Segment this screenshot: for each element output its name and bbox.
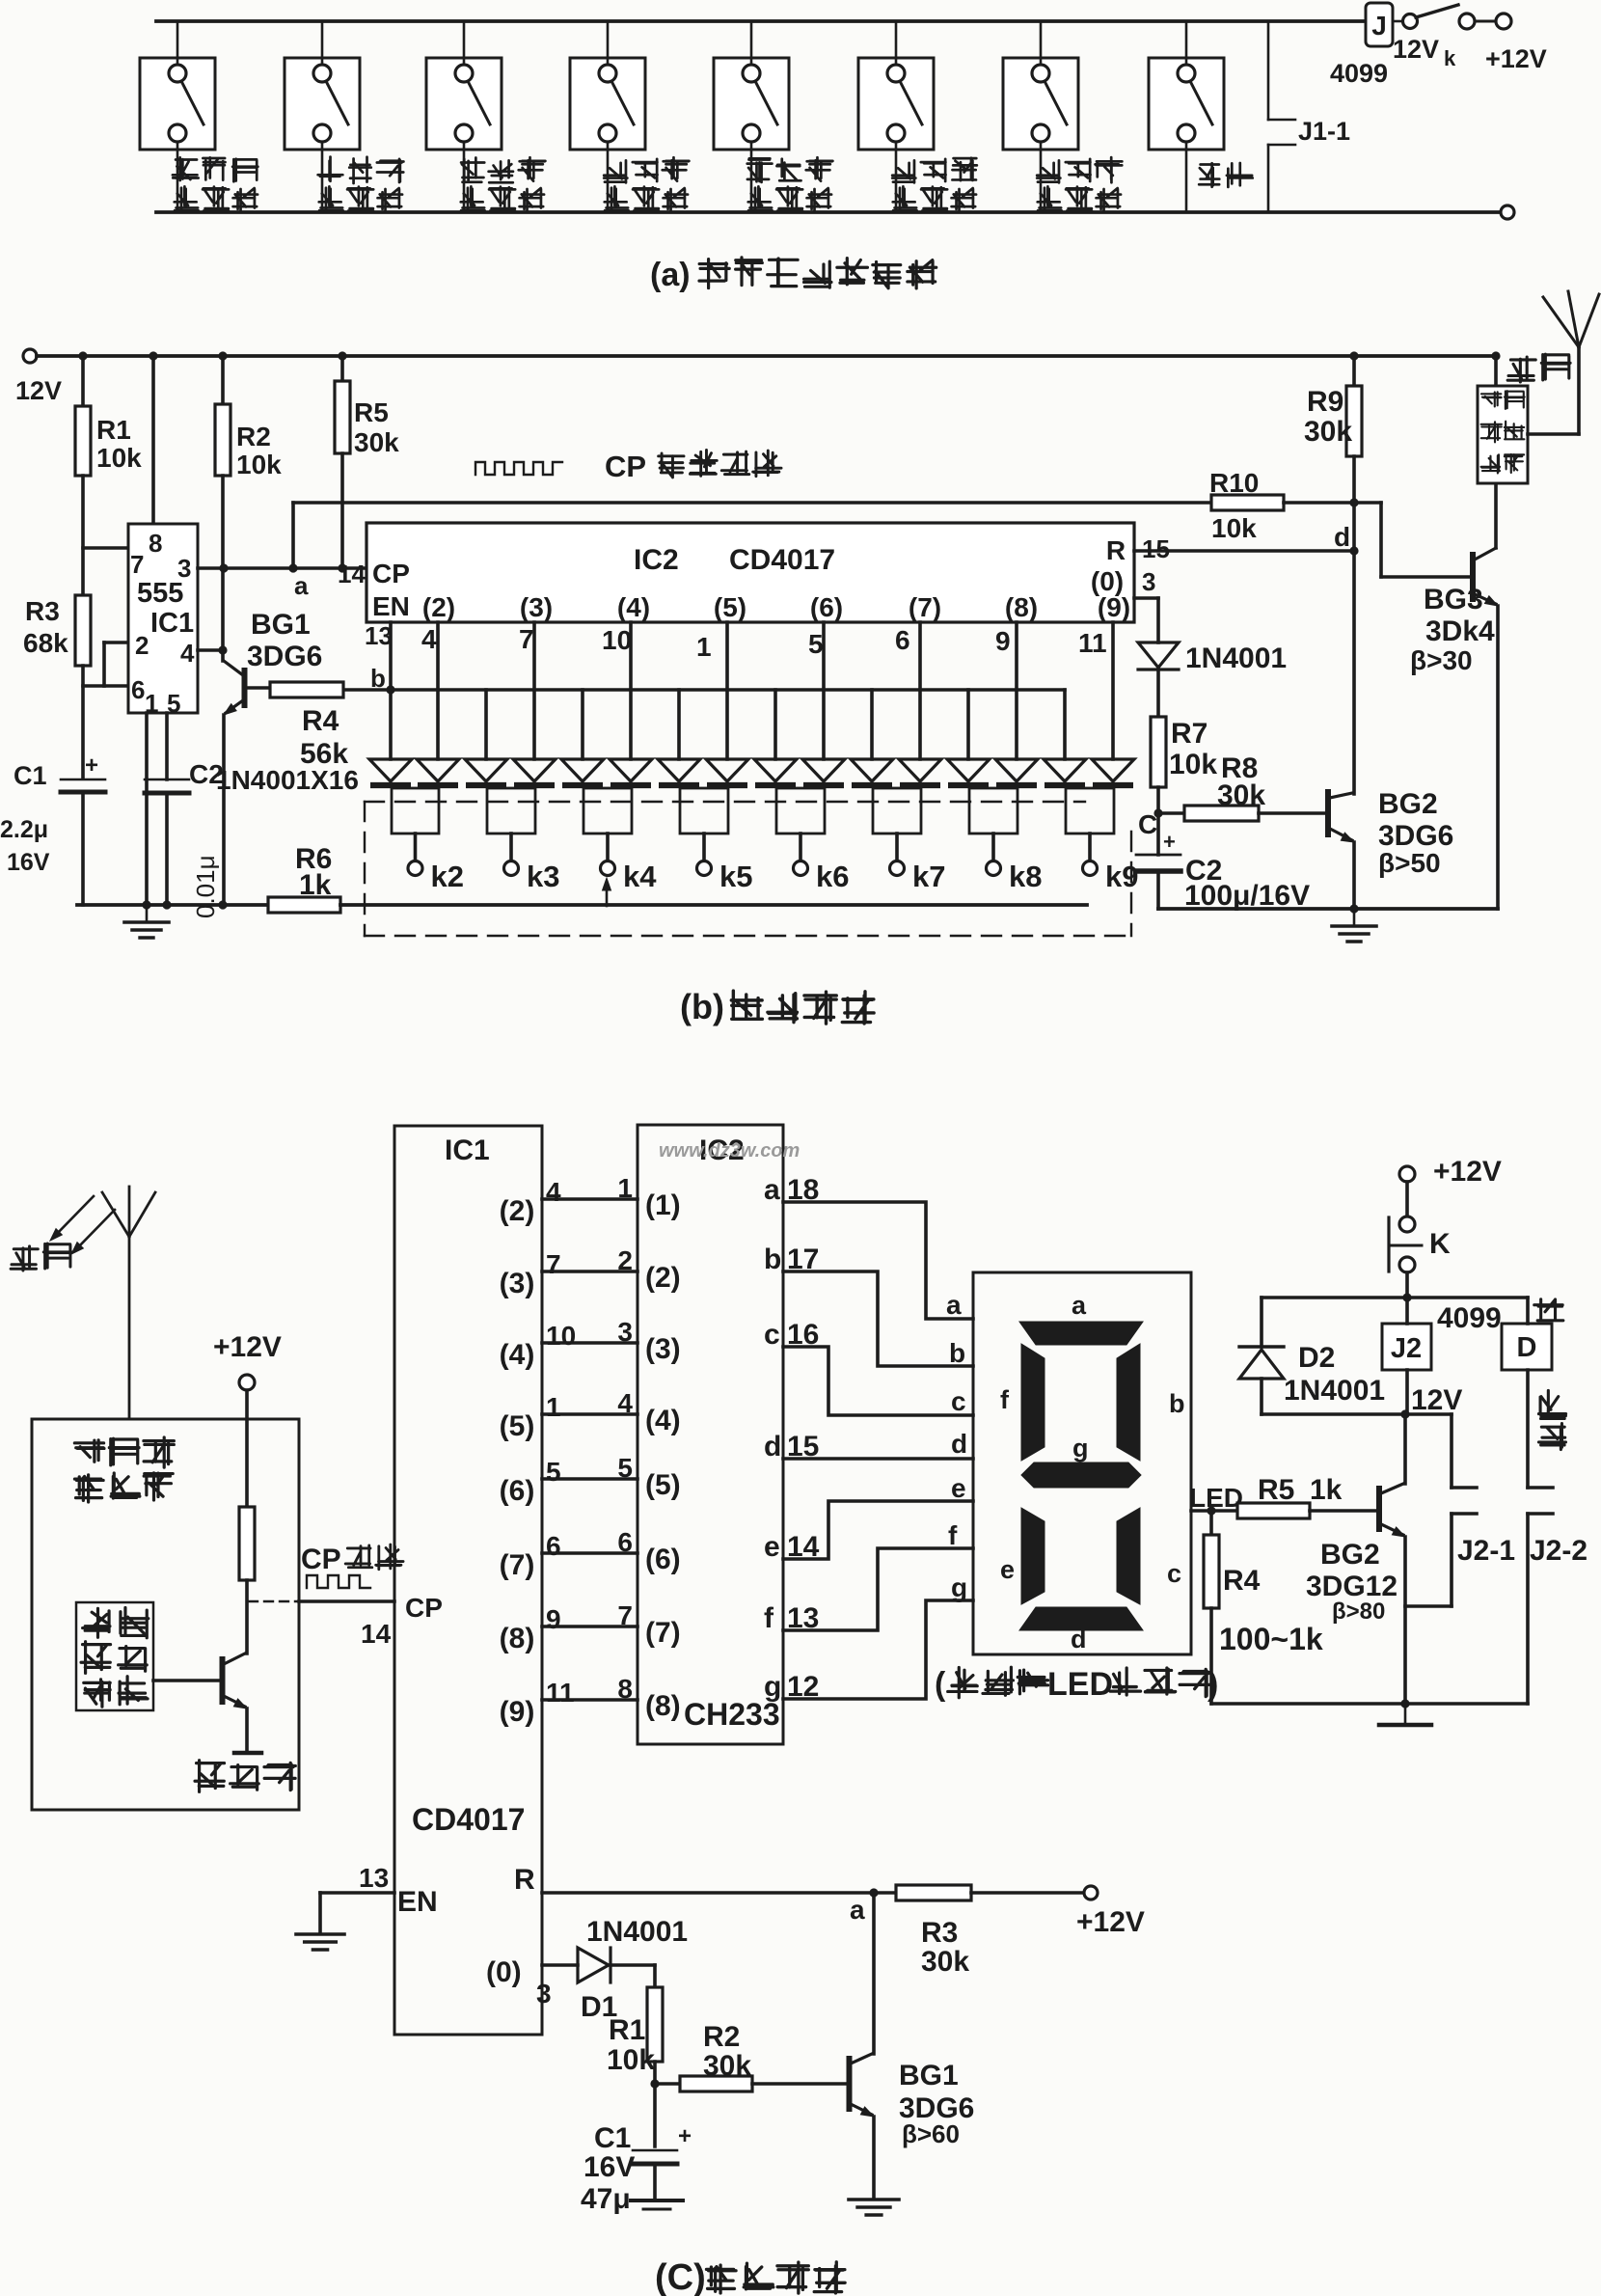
svg-text:+: + [85, 752, 98, 779]
svg-text:16V: 16V [7, 849, 50, 876]
svg-text:2: 2 [135, 631, 149, 660]
svg-text:(5): (5) [714, 592, 746, 622]
svg-text:g: g [951, 1572, 967, 1602]
svg-text:e: e [1000, 1555, 1015, 1584]
svg-text:BG1: BG1 [251, 609, 311, 641]
svg-text:k5: k5 [719, 860, 752, 893]
svg-text:c: c [1167, 1559, 1181, 1588]
svg-text:(8): (8) [1005, 592, 1038, 622]
svg-text:(0): (0) [1091, 566, 1124, 596]
svg-text:a: a [850, 1895, 865, 1925]
svg-text:(6): (6) [810, 592, 843, 622]
svg-text:D: D [1517, 1332, 1537, 1363]
svg-text:4: 4 [421, 624, 437, 654]
svg-text:LED: LED [1047, 1666, 1113, 1703]
svg-text:0.01μ: 0.01μ [191, 855, 220, 918]
svg-text:(4): (4) [500, 1339, 535, 1371]
svg-text:16V: 16V [583, 2151, 635, 2183]
svg-text:(4): (4) [645, 1405, 681, 1436]
svg-text:BG3: BG3 [1424, 584, 1483, 615]
svg-text:k: k [1444, 46, 1456, 70]
svg-text:10: 10 [602, 625, 632, 655]
svg-text:g: g [764, 1671, 781, 1703]
svg-text:11: 11 [546, 1678, 575, 1708]
svg-text:d: d [1334, 522, 1350, 552]
svg-text:J2-2: J2-2 [1530, 1535, 1587, 1567]
svg-text:R7: R7 [1171, 718, 1208, 750]
svg-text:4: 4 [180, 639, 195, 668]
svg-text:7: 7 [617, 1600, 633, 1630]
svg-text:7: 7 [519, 624, 534, 654]
svg-text:C1: C1 [594, 2122, 631, 2154]
svg-text:100μ/16V: 100μ/16V [1184, 880, 1310, 912]
svg-text:(8): (8) [645, 1690, 681, 1722]
svg-text:1N4001: 1N4001 [1284, 1375, 1385, 1407]
svg-text:R5: R5 [1258, 1474, 1294, 1506]
svg-text:EN: EN [372, 591, 410, 621]
svg-text:30k: 30k [354, 427, 399, 457]
svg-text:β>80: β>80 [1332, 1599, 1385, 1625]
svg-text:1: 1 [546, 1392, 561, 1422]
svg-text:R: R [514, 1864, 535, 1896]
svg-text:12V: 12V [15, 376, 62, 405]
svg-text:1k: 1k [299, 869, 332, 901]
svg-text:BG2: BG2 [1320, 1539, 1380, 1571]
svg-text:4: 4 [617, 1388, 633, 1418]
svg-text:k2: k2 [431, 860, 464, 893]
svg-text:(b): (b) [680, 987, 724, 1026]
svg-text:(a): (a) [650, 257, 691, 293]
svg-text:12V: 12V [1411, 1384, 1462, 1416]
svg-text:e: e [764, 1531, 780, 1563]
svg-text:R: R [1106, 535, 1126, 565]
svg-text:68k: 68k [23, 628, 68, 658]
svg-text:1N4001X16: 1N4001X16 [216, 765, 359, 795]
svg-text:k3: k3 [527, 860, 559, 893]
svg-text:1: 1 [696, 632, 712, 662]
svg-text:R5: R5 [354, 397, 389, 427]
svg-text:EN: EN [397, 1886, 438, 1918]
svg-text:LED: LED [1189, 1483, 1243, 1513]
svg-text:(2): (2) [500, 1195, 535, 1227]
svg-text:7: 7 [546, 1249, 561, 1279]
svg-text:10k: 10k [96, 443, 142, 473]
svg-text:b: b [949, 1338, 965, 1368]
svg-text:10k: 10k [1211, 513, 1257, 543]
svg-text:+: + [678, 2123, 692, 2149]
svg-text:+12V: +12V [1076, 1906, 1145, 1938]
svg-text:J: J [1371, 11, 1387, 41]
svg-text:BG2: BG2 [1378, 788, 1438, 820]
svg-text:13: 13 [359, 1863, 389, 1893]
svg-text:k4: k4 [623, 860, 657, 893]
svg-text:6: 6 [617, 1527, 633, 1557]
svg-text:4: 4 [546, 1177, 561, 1207]
svg-text:5: 5 [808, 629, 824, 659]
svg-text:(: ( [935, 1666, 946, 1703]
svg-text:3: 3 [1142, 567, 1155, 596]
svg-text:3: 3 [617, 1317, 633, 1347]
svg-text:d: d [764, 1431, 781, 1462]
svg-text:(5): (5) [500, 1410, 535, 1442]
svg-text:R3: R3 [25, 596, 60, 626]
svg-text:(7): (7) [500, 1549, 535, 1581]
svg-text:30k: 30k [703, 2050, 751, 2082]
svg-text:R1: R1 [96, 415, 131, 445]
svg-text:555: 555 [137, 578, 183, 609]
svg-text:J2: J2 [1391, 1333, 1422, 1364]
svg-text:9: 9 [546, 1604, 561, 1634]
svg-text:5: 5 [546, 1457, 561, 1487]
svg-text:47μ: 47μ [581, 2183, 631, 2215]
svg-text:(6): (6) [645, 1544, 681, 1575]
svg-text:+12V: +12V [1485, 44, 1547, 73]
svg-text:3DG6: 3DG6 [247, 641, 322, 672]
svg-text:a: a [1072, 1291, 1087, 1320]
svg-text:10k: 10k [1169, 749, 1217, 780]
svg-text:R3: R3 [921, 1917, 958, 1949]
svg-text:4099: 4099 [1437, 1302, 1502, 1334]
svg-text:8: 8 [617, 1674, 633, 1704]
svg-text:R4: R4 [1223, 1565, 1261, 1597]
svg-text:1: 1 [617, 1173, 633, 1203]
svg-text:b: b [1169, 1389, 1185, 1418]
svg-text:(3): (3) [500, 1268, 535, 1299]
svg-text:C2: C2 [189, 759, 224, 789]
svg-text:+12V: +12V [213, 1331, 282, 1363]
svg-text:d: d [951, 1429, 967, 1459]
svg-text:3Dk4: 3Dk4 [1425, 615, 1495, 647]
svg-text:CP: CP [605, 450, 646, 483]
svg-text:(5): (5) [645, 1469, 681, 1501]
svg-text:9: 9 [995, 626, 1011, 656]
svg-text:15: 15 [1142, 534, 1170, 563]
svg-text:(9): (9) [500, 1696, 535, 1728]
svg-text:J1-1: J1-1 [1298, 117, 1350, 146]
svg-text:f: f [948, 1520, 958, 1550]
svg-text:R4: R4 [302, 705, 339, 737]
svg-text:k9: k9 [1105, 860, 1138, 893]
svg-text:IC2: IC2 [634, 544, 679, 576]
svg-text:10k: 10k [236, 450, 282, 479]
svg-text:30k: 30k [1217, 779, 1265, 811]
svg-text:K: K [1429, 1228, 1451, 1260]
svg-text:CD4017: CD4017 [412, 1802, 525, 1837]
svg-text:(0): (0) [486, 1956, 522, 1988]
svg-text:13: 13 [365, 621, 393, 650]
svg-text:b: b [370, 664, 386, 693]
svg-text:+12V: +12V [1433, 1156, 1502, 1188]
svg-text:BG1: BG1 [899, 2060, 959, 2091]
svg-text:+: + [1163, 830, 1176, 854]
svg-text:5: 5 [617, 1453, 633, 1483]
svg-text:1N4001: 1N4001 [1185, 642, 1287, 674]
svg-text:1k: 1k [1310, 1474, 1343, 1506]
svg-text:R9: R9 [1307, 386, 1343, 418]
svg-text:C1: C1 [14, 761, 47, 790]
svg-text:(3): (3) [645, 1333, 681, 1365]
svg-text:C: C [1138, 809, 1157, 839]
svg-text:(4): (4) [617, 592, 650, 622]
svg-text:k8: k8 [1009, 860, 1042, 893]
svg-text:6: 6 [131, 675, 145, 704]
svg-text:14: 14 [361, 1619, 392, 1649]
svg-text:b: b [764, 1244, 781, 1275]
svg-text:(3): (3) [520, 592, 553, 622]
svg-text:2.2μ: 2.2μ [0, 816, 48, 843]
svg-text:www.dz3w.com: www.dz3w.com [659, 1140, 800, 1162]
svg-text:(6): (6) [500, 1475, 535, 1507]
svg-text:3: 3 [536, 1979, 552, 2009]
svg-text:d: d [1071, 1625, 1087, 1654]
svg-text:12V: 12V [1393, 35, 1439, 64]
svg-text:CP: CP [372, 559, 410, 588]
svg-text:a: a [294, 571, 309, 600]
svg-text:(2): (2) [645, 1262, 681, 1294]
svg-text:a: a [946, 1290, 962, 1320]
svg-text:CP: CP [405, 1593, 443, 1623]
svg-text:β>30: β>30 [1410, 645, 1473, 675]
svg-text:2: 2 [617, 1245, 633, 1275]
svg-text:a: a [764, 1174, 780, 1206]
svg-text:1N4001: 1N4001 [586, 1916, 688, 1948]
svg-text:(9): (9) [1098, 592, 1130, 622]
svg-text:5: 5 [167, 689, 180, 718]
svg-text:(1): (1) [645, 1189, 681, 1221]
svg-text:10: 10 [546, 1321, 576, 1351]
svg-text:R10: R10 [1209, 468, 1259, 498]
svg-text:(8): (8) [500, 1623, 535, 1654]
svg-text:10k: 10k [607, 2044, 655, 2076]
svg-text:β>60: β>60 [902, 2119, 960, 2148]
svg-text:D2: D2 [1298, 1342, 1335, 1374]
svg-text:e: e [951, 1473, 966, 1503]
svg-text:30k: 30k [1304, 416, 1352, 448]
svg-text:f: f [1000, 1385, 1010, 1414]
svg-text:IC1: IC1 [445, 1134, 490, 1166]
svg-text:CD4017: CD4017 [729, 544, 835, 576]
svg-text:100~1k: 100~1k [1219, 1622, 1323, 1656]
svg-text:(2): (2) [422, 592, 455, 622]
svg-text:30k: 30k [921, 1946, 969, 1978]
svg-text:c: c [951, 1386, 966, 1416]
svg-text:k6: k6 [816, 860, 849, 893]
svg-text:6: 6 [546, 1531, 561, 1561]
svg-text:g: g [1072, 1434, 1089, 1462]
svg-text:(7): (7) [909, 592, 941, 622]
svg-text:8: 8 [149, 529, 162, 558]
svg-text:CP: CP [301, 1544, 341, 1575]
svg-text:14: 14 [338, 560, 366, 588]
svg-text:11: 11 [1078, 628, 1107, 658]
svg-text:R1: R1 [609, 2014, 645, 2046]
svg-text:R2: R2 [703, 2021, 740, 2053]
svg-text:J2-1: J2-1 [1457, 1535, 1515, 1567]
svg-text:R2: R2 [236, 422, 271, 451]
svg-text:IC1: IC1 [150, 608, 194, 639]
svg-text:4099: 4099 [1330, 59, 1388, 88]
svg-text:7: 7 [130, 550, 144, 579]
svg-text:(7): (7) [645, 1617, 681, 1649]
svg-text:c: c [764, 1319, 780, 1351]
svg-text:f: f [764, 1602, 774, 1634]
svg-text:β>50: β>50 [1378, 848, 1441, 878]
svg-text:6: 6 [895, 625, 910, 655]
svg-text:k7: k7 [912, 860, 945, 893]
svg-text:(C): (C) [655, 2257, 706, 2296]
